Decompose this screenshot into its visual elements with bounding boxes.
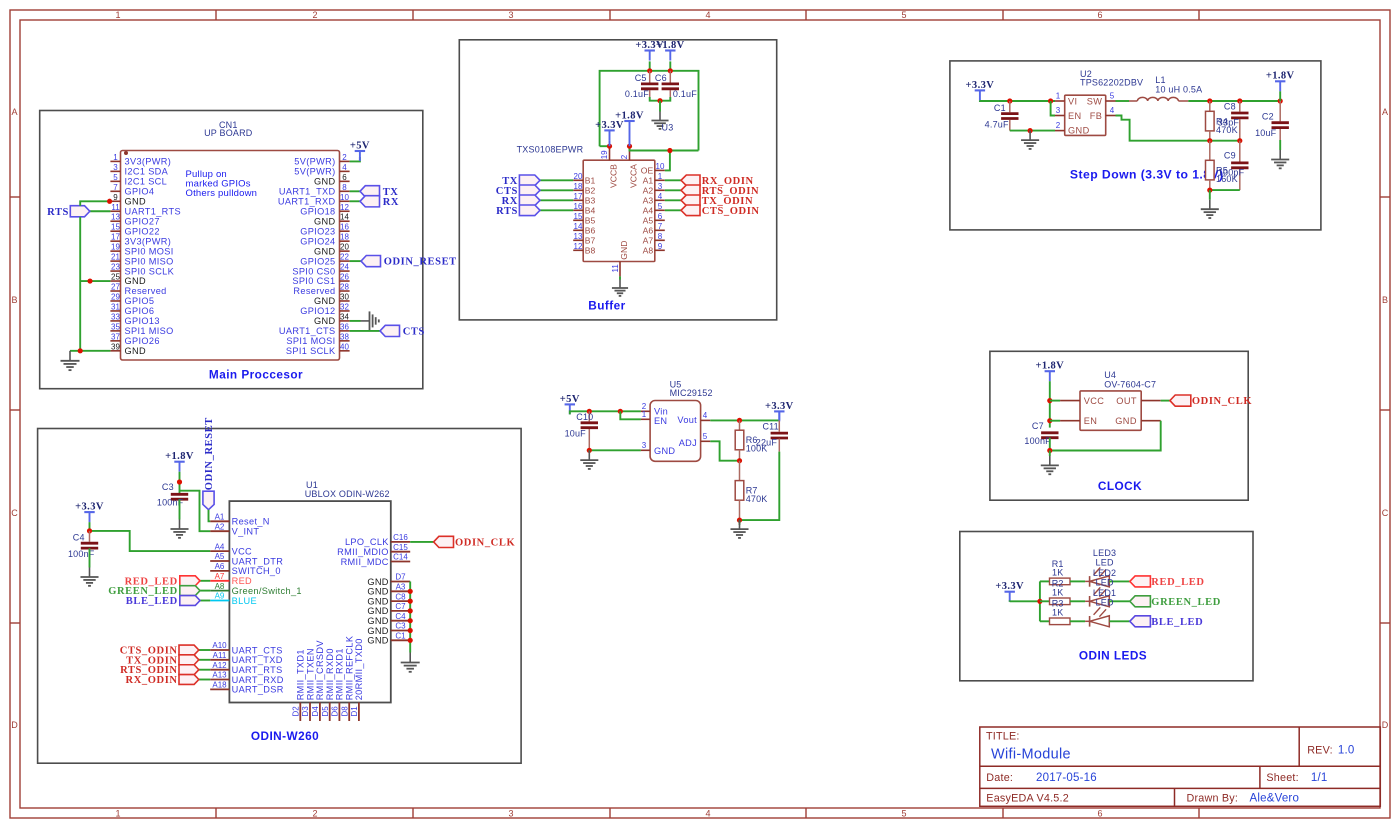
CN1 pin 30 (GND) bbox=[314, 292, 350, 306]
svg-text:13: 13 bbox=[111, 213, 120, 222]
junction at pin 39 bbox=[78, 348, 83, 353]
svg-text:GND: GND bbox=[367, 626, 388, 636]
power +1.8V clock bbox=[1035, 361, 1064, 382]
junction C4 top bbox=[87, 528, 92, 533]
svg-text:1: 1 bbox=[113, 153, 118, 162]
svg-text:RED: RED bbox=[232, 576, 252, 586]
port RX_ODIN bbox=[681, 175, 700, 186]
junction EN bbox=[1047, 418, 1052, 423]
svg-text:3V3(PWR): 3V3(PWR) bbox=[125, 157, 172, 167]
CN1 pin 12 (GPIO18) bbox=[300, 203, 349, 217]
wire to ground bbox=[1209, 190, 1211, 200]
power +5V at U5 bbox=[560, 394, 580, 415]
svg-text:C9: C9 bbox=[1224, 151, 1236, 161]
svg-text:A: A bbox=[1382, 107, 1388, 117]
TXS pin 14 (B6) bbox=[573, 222, 595, 236]
svg-text:V_INT: V_INT bbox=[232, 527, 260, 537]
U1 pin D8 (RMII_REFCLK) bbox=[340, 635, 354, 721]
TXS pin 17 (B3) bbox=[573, 192, 595, 206]
frame column labels top bbox=[115, 10, 1102, 20]
wire C4 bottom bbox=[89, 548, 91, 567]
junction C7/GND bbox=[1047, 448, 1052, 453]
CN1 pin 34 (GND) bbox=[314, 312, 350, 326]
svg-text:GPIO13: GPIO13 bbox=[125, 316, 160, 326]
CN1 pin 29 (GPIO5) bbox=[110, 292, 154, 306]
CN1 pin 9 (GND) bbox=[110, 193, 146, 207]
svg-text:6: 6 bbox=[1097, 10, 1102, 20]
CN1 pin 28 (Reserved) bbox=[293, 283, 349, 297]
svg-text:LED: LED bbox=[1096, 558, 1114, 568]
junction GND bus bbox=[408, 608, 413, 613]
U1 pin C1 (GND) bbox=[367, 632, 410, 646]
svg-text:6: 6 bbox=[658, 212, 663, 221]
svg-text:C4: C4 bbox=[73, 533, 85, 543]
svg-text:GPIO24: GPIO24 bbox=[300, 236, 335, 246]
svg-text:GND: GND bbox=[125, 346, 146, 356]
svg-text:C3: C3 bbox=[162, 482, 174, 492]
junction at pin 9 bbox=[107, 199, 112, 204]
wire +1.8V to loop bbox=[669, 61, 671, 70]
U1 pin D2 (RMII_TXD1) bbox=[292, 649, 306, 721]
ground below TXS (U3 pad) bbox=[612, 280, 628, 296]
wire R3 to LED bbox=[1070, 620, 1085, 622]
frame column ticks top bbox=[216, 10, 1199, 20]
svg-text:LPO_CLK: LPO_CLK bbox=[345, 537, 389, 547]
svg-text:GPIO12: GPIO12 bbox=[300, 306, 335, 316]
TXS pin 7 (A6) bbox=[643, 222, 665, 236]
CN1 pin 2 (5V(PWR)) bbox=[294, 153, 349, 167]
svg-text:BLUE: BLUE bbox=[232, 596, 257, 606]
svg-text:VCC: VCC bbox=[1084, 396, 1105, 406]
svg-text:GND: GND bbox=[654, 446, 675, 456]
IC U5 body bbox=[650, 401, 701, 462]
svg-text:MIC29152: MIC29152 bbox=[670, 388, 713, 398]
svg-text:UART1_TXD: UART1_TXD bbox=[279, 187, 336, 197]
resistor R1 1K bbox=[1050, 559, 1071, 585]
port RED_LED bbox=[180, 576, 200, 586]
svg-text:GND: GND bbox=[619, 241, 629, 260]
svg-text:SWITCH_0: SWITCH_0 bbox=[232, 566, 281, 576]
wire to pin 19 top bbox=[600, 145, 610, 147]
svg-text:Sheet:: Sheet: bbox=[1266, 772, 1298, 784]
CN1 pin 15 (GPIO22) bbox=[110, 223, 159, 237]
junction C1 top bbox=[1007, 98, 1012, 103]
IC U3 buffer body bbox=[583, 160, 655, 261]
svg-text:D7: D7 bbox=[395, 573, 406, 582]
wire pin 11 to ground bbox=[619, 276, 621, 279]
U1 pin A5 (UART_DTR) bbox=[210, 552, 283, 566]
svg-text:A8: A8 bbox=[643, 246, 654, 256]
svg-text:34: 34 bbox=[340, 312, 349, 321]
svg-text:4: 4 bbox=[703, 411, 708, 420]
port GREEN_LED bbox=[180, 586, 200, 596]
junction C2/+1.8V bbox=[1278, 98, 1283, 103]
svg-text:A11: A11 bbox=[213, 651, 227, 660]
wire ADJ to divider bbox=[710, 441, 739, 460]
wire RX_ODIN port to pin bbox=[199, 679, 210, 681]
svg-text:GND: GND bbox=[125, 276, 146, 286]
wire C7 bottom bbox=[1049, 438, 1051, 451]
CN1 pin 23 (SPI0 SCLK) bbox=[110, 263, 174, 277]
svg-text:GPIO6: GPIO6 bbox=[125, 306, 155, 316]
U4 pin EN bbox=[1060, 416, 1097, 426]
junction GND bus bbox=[408, 599, 413, 604]
svg-text:Main Proccesor: Main Proccesor bbox=[209, 368, 303, 382]
svg-text:22uF: 22uF bbox=[756, 437, 778, 447]
CN1 pin 13 (GPIO27) bbox=[110, 213, 159, 227]
power +3.3V step-down bbox=[966, 80, 995, 101]
svg-text:3: 3 bbox=[113, 163, 118, 172]
svg-text:18: 18 bbox=[574, 182, 583, 191]
wire +1.8V down bbox=[179, 472, 181, 493]
TXS pin 11 (GND) bbox=[611, 241, 629, 277]
svg-text:18: 18 bbox=[340, 233, 349, 242]
U1 pin A18 (UART_DSR) bbox=[210, 681, 284, 695]
wire C2 to ground bbox=[1279, 140, 1281, 150]
svg-text:A7: A7 bbox=[643, 236, 654, 246]
wire C5 bottom bbox=[650, 97, 660, 101]
svg-text:SW: SW bbox=[1087, 97, 1103, 107]
svg-text:OV-7604-C7: OV-7604-C7 bbox=[1104, 379, 1156, 389]
section box Step Down bbox=[950, 61, 1321, 230]
svg-text:GND: GND bbox=[314, 316, 335, 326]
svg-text:UART1_RTS: UART1_RTS bbox=[125, 206, 181, 216]
svg-text:+1.8V: +1.8V bbox=[656, 40, 685, 51]
svg-text:6: 6 bbox=[1097, 809, 1102, 819]
wire BLE_LED port to pin bbox=[200, 600, 210, 602]
port TX bbox=[360, 186, 380, 197]
svg-text:GND: GND bbox=[367, 596, 388, 606]
svg-text:D2: D2 bbox=[292, 706, 301, 717]
svg-text:UART_DTR: UART_DTR bbox=[232, 556, 284, 566]
capacitor C11 bbox=[756, 420, 788, 447]
svg-text:D: D bbox=[1382, 720, 1389, 730]
svg-text:Buffer: Buffer bbox=[588, 299, 625, 313]
svg-text:3V3(PWR): 3V3(PWR) bbox=[125, 236, 172, 246]
svg-text:RTS: RTS bbox=[496, 206, 518, 217]
junction OE/loop bbox=[667, 148, 672, 153]
svg-text:+3.3V: +3.3V bbox=[75, 502, 104, 513]
port GREEN_LED (LED block) bbox=[1130, 596, 1151, 607]
svg-text:B3: B3 bbox=[585, 196, 596, 206]
resistor R5 bbox=[1206, 160, 1238, 184]
svg-text:0.1uF: 0.1uF bbox=[673, 89, 697, 99]
U1 pin A2 (V_INT) bbox=[210, 522, 259, 536]
svg-text:Others pulldown: Others pulldown bbox=[186, 188, 258, 199]
svg-text:5: 5 bbox=[1110, 92, 1115, 101]
svg-text:19: 19 bbox=[600, 150, 609, 159]
wire C3 bottom bbox=[179, 499, 181, 519]
svg-text:10uF: 10uF bbox=[565, 429, 587, 439]
svg-text:1K: 1K bbox=[1052, 588, 1063, 598]
CN1 pin 5 (I2C1 SCL) bbox=[110, 173, 167, 187]
svg-text:0.1uF: 0.1uF bbox=[625, 89, 649, 99]
svg-text:14: 14 bbox=[340, 213, 349, 222]
svg-text:A13: A13 bbox=[212, 671, 227, 680]
svg-text:2: 2 bbox=[342, 153, 347, 162]
svg-text:GND: GND bbox=[367, 577, 388, 587]
svg-text:C4: C4 bbox=[395, 612, 406, 621]
svg-text:C2: C2 bbox=[1262, 111, 1274, 121]
svg-text:Vout: Vout bbox=[677, 415, 697, 425]
svg-text:3: 3 bbox=[658, 182, 663, 191]
wire to clock ground bbox=[1049, 451, 1051, 457]
CN1 pin 4 (5V(PWR)) bbox=[294, 163, 349, 177]
svg-text:EN: EN bbox=[654, 416, 667, 426]
svg-text:EN: EN bbox=[1084, 416, 1098, 426]
svg-text:SPI0 CS0: SPI0 CS0 bbox=[292, 266, 335, 276]
svg-text:38: 38 bbox=[340, 332, 349, 341]
U2 pin 4 (FB) bbox=[1090, 106, 1116, 121]
TXS pin 13 (B7) bbox=[573, 232, 595, 246]
svg-text:ODIN LEDS: ODIN LEDS bbox=[1079, 649, 1147, 663]
CN1 pin 17 (3V3(PWR)) bbox=[110, 233, 171, 247]
svg-text:4: 4 bbox=[705, 809, 710, 819]
resistor R6 bbox=[735, 430, 767, 454]
wire R2 to LED bbox=[1070, 600, 1085, 602]
wire RTS port to B4 bbox=[540, 209, 573, 211]
svg-text:A5: A5 bbox=[215, 552, 225, 561]
svg-text:5: 5 bbox=[113, 173, 118, 182]
frame row labels left bbox=[11, 107, 18, 730]
svg-text:+3.3V: +3.3V bbox=[966, 80, 995, 91]
CN1 pin 19 (SPI0 MOSI) bbox=[110, 243, 173, 257]
svg-text:UBLOX ODIN-W262: UBLOX ODIN-W262 bbox=[305, 489, 390, 499]
svg-text:EasyEDA V4.5.2: EasyEDA V4.5.2 bbox=[986, 792, 1069, 804]
svg-text:C16: C16 bbox=[393, 533, 408, 542]
svg-text:5: 5 bbox=[658, 202, 663, 211]
junction R6 top bbox=[737, 418, 742, 423]
capacitor C3 bbox=[157, 482, 188, 507]
svg-text:27: 27 bbox=[111, 283, 120, 292]
U1 pin C8 (GND) bbox=[367, 592, 410, 606]
U4 pin GND bbox=[1115, 416, 1160, 426]
wire C10 ground stub bbox=[588, 450, 590, 451]
svg-text:B4: B4 bbox=[585, 206, 596, 216]
TXS pin 16 (B4) bbox=[573, 202, 595, 216]
svg-text:4: 4 bbox=[658, 192, 663, 201]
svg-text:17: 17 bbox=[574, 192, 583, 201]
resistor R3 1K bbox=[1050, 599, 1071, 625]
wire OE to loop bbox=[665, 151, 670, 171]
junction C3 top bbox=[177, 479, 182, 484]
U1 pin D3 (RMII_TXEN) bbox=[301, 648, 315, 721]
wire TX port to B1 bbox=[540, 179, 573, 181]
U1 pin A11 (UART_TXD) bbox=[210, 651, 283, 665]
svg-text:7: 7 bbox=[658, 222, 663, 231]
svg-text:CLOCK: CLOCK bbox=[1098, 479, 1142, 493]
svg-text:GND: GND bbox=[367, 636, 388, 646]
capacitor C10 bbox=[565, 411, 598, 450]
svg-text:10 uH 0.5A: 10 uH 0.5A bbox=[1155, 85, 1202, 95]
junction LED bus bbox=[1037, 599, 1042, 604]
svg-text:SPI1 MISO: SPI1 MISO bbox=[125, 326, 174, 336]
svg-text:LED: LED bbox=[1096, 597, 1114, 607]
svg-text:Wifi-Module: Wifi-Module bbox=[991, 747, 1071, 763]
U1 pin A13 (UART_RXD) bbox=[210, 671, 284, 685]
svg-text:1: 1 bbox=[115, 809, 120, 819]
junction C8 top bbox=[1237, 98, 1242, 103]
wire +5V to Vin bbox=[570, 411, 641, 414]
wire to V_INT bbox=[180, 491, 211, 532]
wire pin 2 to +5V bbox=[350, 157, 360, 161]
svg-text:TITLE:: TITLE: bbox=[986, 731, 1020, 743]
wire CTS port to B2 bbox=[540, 189, 573, 191]
frame column ticks bottom bbox=[216, 808, 1199, 818]
svg-text:C1: C1 bbox=[395, 632, 406, 641]
svg-text:10uF: 10uF bbox=[1255, 128, 1277, 138]
ground below C2 bbox=[1271, 150, 1289, 168]
svg-text:RTS: RTS bbox=[47, 207, 69, 218]
svg-text:UART_RXD: UART_RXD bbox=[232, 675, 284, 685]
U1 pin D7 (GND) bbox=[367, 573, 410, 587]
svg-text:5: 5 bbox=[703, 432, 708, 441]
svg-text:4.7uF: 4.7uF bbox=[985, 120, 1009, 130]
wire to U3 ground bbox=[659, 101, 661, 112]
svg-text:15: 15 bbox=[574, 212, 583, 221]
svg-text:2: 2 bbox=[620, 154, 629, 159]
svg-text:16: 16 bbox=[340, 223, 349, 232]
svg-text:3: 3 bbox=[1056, 106, 1061, 115]
svg-text:B7: B7 bbox=[585, 236, 596, 246]
wire LPO_CLK to port bbox=[410, 541, 433, 543]
U1 pin C14 (RMII_MDC) bbox=[341, 553, 411, 567]
ground below R5 bbox=[1201, 200, 1219, 218]
svg-text:UART1_RXD: UART1_RXD bbox=[278, 196, 336, 206]
ground below C3 bbox=[170, 520, 188, 538]
svg-text:SPI0 SCLK: SPI0 SCLK bbox=[125, 266, 175, 276]
wire LED bus vertical bbox=[1039, 581, 1041, 621]
svg-text:17: 17 bbox=[111, 233, 120, 242]
svg-text:+3.3V: +3.3V bbox=[765, 401, 794, 412]
wire EN branch bbox=[1051, 101, 1055, 116]
svg-text:C7: C7 bbox=[395, 602, 406, 611]
svg-text:OUT: OUT bbox=[1116, 396, 1137, 406]
capacitor C6 bbox=[655, 71, 697, 99]
junction C5 top bbox=[647, 68, 652, 73]
junction R7 bottom bbox=[737, 518, 742, 523]
svg-text:+1.8V: +1.8V bbox=[1266, 71, 1295, 82]
port RTS bbox=[70, 206, 90, 217]
svg-text:GND: GND bbox=[314, 296, 335, 306]
U5 pin 1 (EN) bbox=[641, 410, 667, 426]
wire R5/C9 bottom bbox=[1210, 189, 1240, 191]
port CTS bbox=[380, 325, 400, 336]
ground U3 bbox=[651, 112, 668, 129]
svg-text:GREEN_LED: GREEN_LED bbox=[1151, 597, 1221, 608]
TXS pin 10 (OE) bbox=[641, 162, 665, 176]
svg-text:Ale&Vero: Ale&Vero bbox=[1250, 792, 1300, 804]
svg-text:A12: A12 bbox=[212, 661, 227, 670]
LED LED2 bbox=[1085, 568, 1116, 607]
svg-text:SPI0 CS1: SPI0 CS1 bbox=[292, 276, 335, 286]
port CTS_ODIN bbox=[681, 205, 700, 216]
junction VCC bbox=[1047, 398, 1052, 403]
port ODIN_CLK bbox=[434, 536, 454, 547]
svg-text:LED: LED bbox=[1096, 577, 1114, 587]
svg-text:4: 4 bbox=[1110, 106, 1115, 115]
svg-text:40: 40 bbox=[340, 342, 349, 351]
wire +3.3V to loop bbox=[649, 61, 651, 70]
svg-text:C15: C15 bbox=[393, 543, 408, 552]
svg-text:C1: C1 bbox=[994, 103, 1006, 113]
svg-text:5V(PWR): 5V(PWR) bbox=[294, 167, 335, 177]
svg-text:A10: A10 bbox=[212, 641, 227, 650]
capacitor C2 bbox=[1255, 101, 1289, 140]
wire OUT to port bbox=[1161, 400, 1170, 402]
svg-text:20RMII_TXD0: 20RMII_TXD0 bbox=[354, 638, 364, 700]
svg-text:GPIO5: GPIO5 bbox=[125, 296, 155, 306]
port RTS_ODIN bbox=[681, 185, 700, 196]
svg-text:GND: GND bbox=[314, 177, 335, 187]
junction GND bus bbox=[408, 638, 413, 643]
CN1 pin 35 (SPI1 MISO) bbox=[110, 322, 173, 336]
svg-text:470K: 470K bbox=[746, 494, 768, 504]
svg-text:+3.3V: +3.3V bbox=[595, 120, 624, 131]
wire A4 to CTS_ODIN port bbox=[665, 209, 681, 211]
U1 pin A1 (Reset_N) bbox=[210, 513, 270, 527]
wire LED to RED_LED port bbox=[1109, 580, 1130, 582]
U1 pin A3 (GND) bbox=[367, 583, 410, 597]
svg-text:1: 1 bbox=[658, 172, 663, 181]
wire to ground U5 bbox=[739, 520, 741, 525]
svg-text:REV:: REV: bbox=[1307, 745, 1333, 757]
U1 pin C4 (GND) bbox=[367, 612, 410, 626]
title block outer bbox=[980, 727, 1381, 806]
junction EN branch bbox=[1048, 98, 1053, 103]
CN1 pin 31 (GPIO6) bbox=[110, 302, 154, 316]
svg-text:C3: C3 bbox=[395, 622, 406, 631]
port RX bbox=[360, 196, 380, 207]
svg-text:12: 12 bbox=[340, 203, 349, 212]
svg-text:A1: A1 bbox=[215, 513, 225, 522]
svg-text:GND: GND bbox=[125, 196, 146, 206]
svg-text:9: 9 bbox=[113, 193, 118, 202]
wire C10 bottom to GND pin bbox=[589, 449, 641, 451]
svg-text:Date:: Date: bbox=[986, 772, 1013, 784]
svg-text:ODIN_RESET: ODIN_RESET bbox=[204, 417, 215, 490]
svg-text:VI: VI bbox=[1068, 97, 1077, 107]
svg-text:SPI1 MOSI: SPI1 MOSI bbox=[286, 336, 335, 346]
port ODIN_CLK out bbox=[1170, 395, 1191, 406]
svg-text:SPI0 MISO: SPI0 MISO bbox=[125, 256, 174, 266]
svg-text:C10: C10 bbox=[576, 412, 593, 422]
svg-text:Vin: Vin bbox=[654, 407, 668, 417]
power +1.8V at VCCA bbox=[615, 110, 644, 131]
CN1 pin 37 (GPIO26) bbox=[110, 332, 159, 346]
svg-text:1/1: 1/1 bbox=[1311, 772, 1328, 784]
wire pin 36 to CTS port bbox=[350, 330, 380, 332]
power +1.8V at C3 bbox=[165, 451, 194, 472]
port BLE_LED bbox=[180, 596, 200, 606]
section box Main Proccesor bbox=[40, 111, 423, 389]
svg-text:I2C1 SCL: I2C1 SCL bbox=[125, 177, 168, 187]
CN1 pin 22 (GPIO25) bbox=[300, 253, 349, 267]
CN1 pin 16 (GPIO23) bbox=[300, 223, 349, 237]
CN1 pin 25 (GND) bbox=[110, 273, 146, 287]
svg-text:ODIN_RESET: ODIN_RESET bbox=[384, 257, 457, 268]
wire pin 8 to TX port bbox=[350, 190, 360, 192]
port BLE_LED (LED block) bbox=[1130, 616, 1151, 627]
svg-text:31: 31 bbox=[111, 302, 120, 311]
IC U2 body bbox=[1065, 95, 1106, 135]
U1 pin D5 (RMII_RXD0) bbox=[321, 648, 335, 721]
svg-text:6: 6 bbox=[342, 173, 347, 182]
section box Buffer bbox=[459, 40, 776, 320]
U1 pin A9 (BLUE) bbox=[210, 592, 257, 606]
svg-text:3: 3 bbox=[508, 809, 513, 819]
junction R6/R7 bbox=[737, 458, 742, 463]
